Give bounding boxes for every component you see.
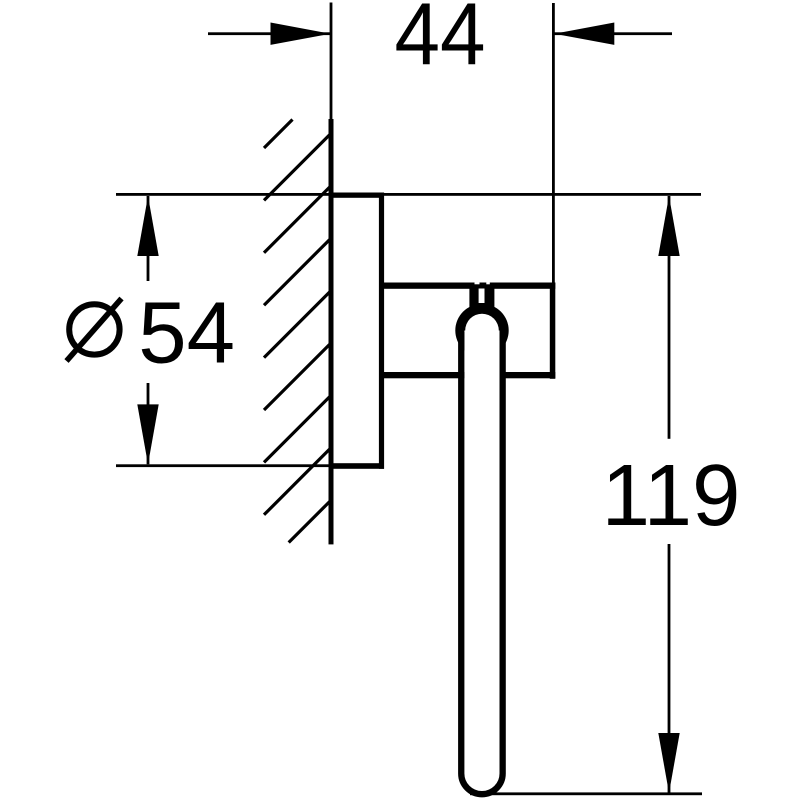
arrowhead 119 down (658, 733, 679, 793)
pivot pin (469, 285, 494, 310)
arrowhead Ø54 down (137, 404, 158, 464)
arrowhead 119 up (658, 196, 679, 256)
wall line (329, 119, 334, 544)
extension line left (44) (330, 3, 333, 120)
label Ø54 diameter symbol slash (67, 299, 122, 362)
ring hook inner (465, 314, 499, 348)
ring hook outer (455, 304, 508, 357)
bottom reference line (plate, Ø54) (116, 464, 331, 467)
pin slot (479, 289, 485, 304)
arm bottom edge (381, 372, 555, 378)
dimension line 44 right segment (554, 32, 672, 35)
notch right in arm top edge (486, 282, 490, 284)
svg-text:119: 119 (602, 447, 741, 544)
svg-text:44: 44 (395, 0, 486, 84)
dimension line 119 upper segment (668, 196, 671, 439)
arrowhead 44 right (554, 23, 614, 45)
notch left in arm top edge (475, 282, 480, 284)
dimension line Ø54 lower segment (147, 383, 150, 464)
arrowhead Ø54 up (137, 196, 158, 256)
ring bar (461, 332, 502, 794)
arm top edge (381, 283, 555, 289)
dimension line 119 lower segment (668, 544, 671, 793)
mounting plate bottom edge (329, 463, 385, 469)
wall hatching (264, 120, 332, 543)
extension line right (44) (552, 3, 555, 289)
mounting plate top edge (329, 193, 385, 198)
mounting plate front edge (379, 193, 384, 469)
arrowhead 44 left (271, 23, 331, 45)
dimension line Ø54 upper segment (147, 196, 150, 281)
bottom reference line (119) (470, 792, 702, 795)
ring interior (464, 331, 499, 781)
top reference line (116, 193, 701, 196)
svg-text:54: 54 (138, 285, 235, 382)
arm front edge (550, 283, 556, 379)
label Ø54 diameter symbol circle (69, 304, 119, 354)
dimension line 44 left segment (208, 32, 330, 35)
